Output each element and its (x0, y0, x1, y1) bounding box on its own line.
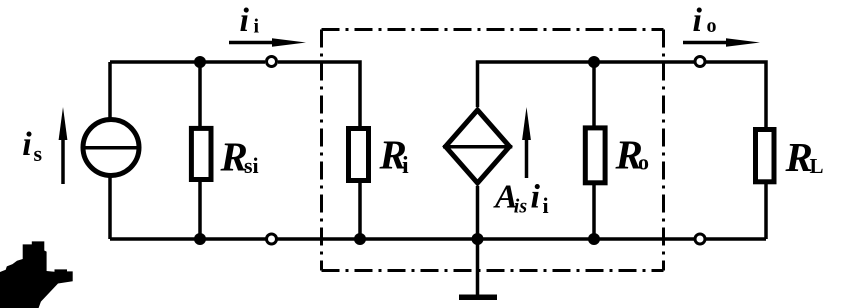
wire output terminal to RL (706, 62, 766, 127)
svg-text:is: is (514, 196, 528, 218)
svg-text:o: o (638, 150, 649, 175)
wire diamond bottom to ground (476, 186, 480, 295)
current source is (circle) (83, 120, 139, 176)
wire Rsi vertical (198, 62, 202, 239)
svg-text:i: i (543, 193, 549, 218)
arrow io (683, 41, 729, 45)
svg-text:o: o (707, 15, 717, 37)
arrow ii (229, 41, 276, 45)
svg-text:i: i (531, 179, 541, 216)
wire Ro vertical (592, 62, 596, 239)
resistor RL (756, 130, 775, 182)
wire diamond top to output terminal (478, 62, 695, 107)
ink blob artifact bottom-left (0, 241, 73, 308)
wire RL bottom (764, 184, 768, 239)
svg-text:i: i (693, 2, 703, 39)
wire bottom rail (110, 237, 694, 241)
resistor Ri (349, 129, 369, 181)
wire left vertical (through source) (108, 62, 112, 239)
input terminal bottom (open circle) (267, 234, 277, 244)
diamond chord (443, 145, 512, 149)
node dot diamond bottom (472, 233, 484, 245)
node dot Ro top (588, 56, 600, 68)
dependent current source Ais*ii (diamond) (446, 110, 510, 183)
node dot Rsi bottom (194, 233, 206, 245)
arrow is (61, 136, 65, 184)
node dot Ri bottom (354, 233, 366, 245)
output terminal bottom (open circle) (695, 234, 705, 244)
wire top-left horizontal (source node to input terminal) (110, 60, 265, 64)
svg-text:i: i (22, 126, 32, 163)
output terminal top (open circle) (695, 57, 705, 67)
node dot Ro bottom (588, 233, 600, 245)
arrow Ais ii (525, 138, 529, 178)
dash-dot amplifier box (322, 30, 664, 271)
svg-text:L: L (810, 154, 824, 178)
wire bottom right (706, 237, 766, 241)
svg-text:i: i (254, 16, 260, 38)
ground (459, 295, 497, 301)
input terminal top (open circle) (267, 57, 277, 67)
resistor Rsi (191, 128, 211, 179)
node dot Rsi top (194, 56, 206, 68)
resistor Ro (585, 128, 605, 183)
svg-text:i: i (240, 2, 250, 39)
svg-text:i: i (402, 153, 409, 179)
svg-text:si: si (244, 153, 259, 178)
wire input terminal to Ri top (278, 62, 360, 126)
wire Ri bottom (358, 183, 362, 239)
current source chord (84, 146, 139, 150)
svg-text:s: s (34, 141, 43, 166)
